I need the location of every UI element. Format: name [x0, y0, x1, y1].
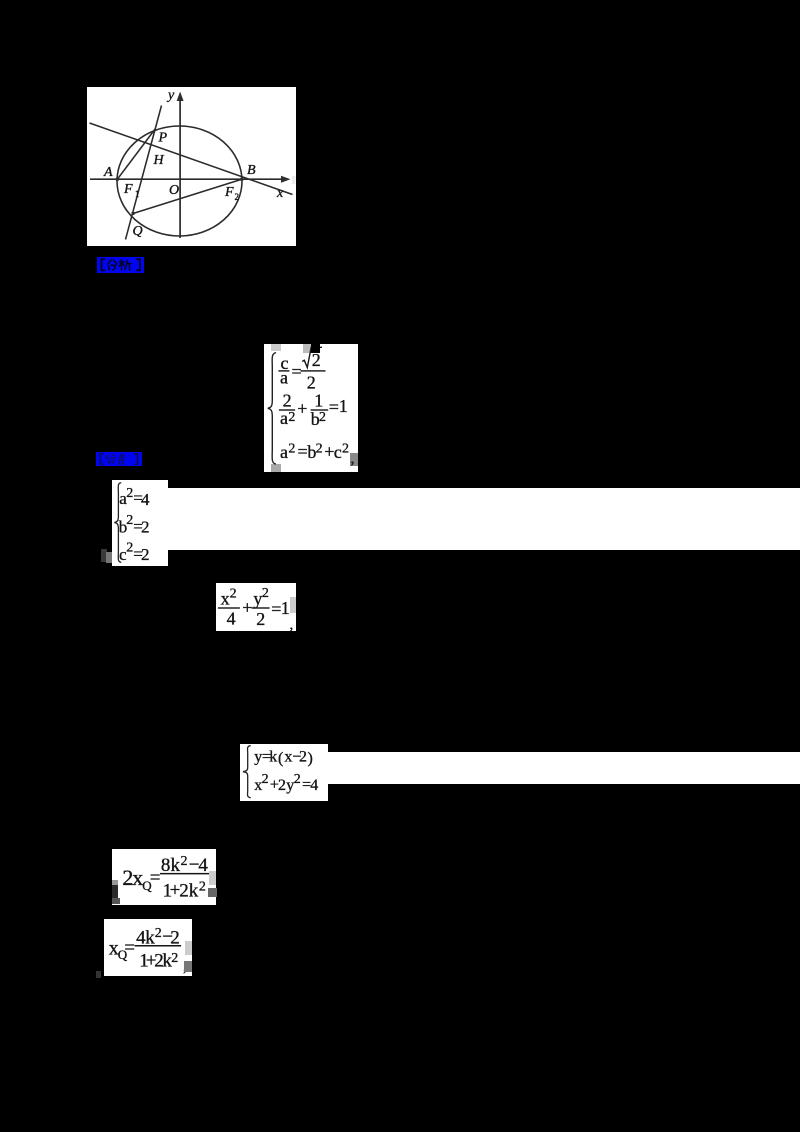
svg-text:,: ,: [290, 617, 294, 631]
svg-text:k: k: [145, 927, 155, 948]
svg-text:2: 2: [294, 772, 301, 787]
svg-text:2: 2: [170, 927, 180, 948]
svg-text:+: +: [242, 597, 252, 617]
svg-text:2: 2: [235, 192, 240, 202]
svg-text:=: =: [292, 361, 302, 381]
svg-text:2: 2: [262, 772, 269, 787]
artifact mark left of system2 box: [101, 549, 107, 562]
ellipse: [117, 126, 242, 236]
svg-text:2: 2: [171, 951, 178, 966]
svg-text:): ): [308, 750, 313, 767]
svg-text:k: k: [269, 749, 277, 766]
left brace: [268, 352, 276, 463]
svg-text:Q: Q: [133, 224, 143, 239]
2xQ = (8k2-4)/(1+2k2): [112, 849, 216, 906]
svg-text:2: 2: [307, 372, 316, 392]
svg-text:x: x: [221, 589, 230, 609]
artifact comma left-bottom of xQ box: [96, 971, 101, 978]
labels: [103, 88, 284, 239]
svg-text:2: 2: [230, 587, 237, 602]
point B: [240, 178, 243, 181]
svg-text:c: c: [334, 442, 342, 462]
svg-text:=: =: [329, 396, 339, 416]
svg-text:2: 2: [126, 541, 133, 556]
svg-text:2: 2: [180, 853, 187, 868]
svg-text:2: 2: [256, 609, 265, 629]
svg-text:2: 2: [278, 777, 286, 794]
svg-text:2: 2: [141, 545, 150, 564]
svg-text:x: x: [276, 186, 284, 201]
svg-text:8: 8: [160, 854, 170, 875]
figure: ellipse diagram image: [87, 87, 296, 246]
svg-text:B: B: [247, 163, 256, 178]
svg-text:y: y: [166, 88, 175, 103]
svg-text:2: 2: [126, 513, 133, 528]
svg-text:2: 2: [141, 518, 150, 537]
x^2/4 + y^2/2 = 1: [216, 583, 296, 631]
svg-text:2: 2: [299, 749, 307, 766]
svg-text:a: a: [280, 408, 288, 428]
svg-text:F: F: [224, 185, 234, 200]
segment AP: [117, 129, 155, 180]
svg-text:4: 4: [227, 609, 236, 629]
svg-text:2: 2: [312, 350, 321, 370]
svg-text:2: 2: [179, 880, 189, 901]
white band 1: [167, 488, 800, 551]
svg-text:a: a: [280, 367, 288, 387]
svg-text:2: 2: [288, 409, 295, 424]
svg-text:2: 2: [316, 441, 323, 456]
svg-text:2: 2: [154, 925, 161, 940]
svg-text:(: (: [278, 750, 283, 767]
blue label 1 [analysis]: [97, 257, 145, 273]
svg-text:=: =: [124, 937, 135, 958]
svg-text:4: 4: [141, 490, 150, 509]
point Q: [132, 212, 135, 215]
svg-text:k: k: [170, 854, 180, 875]
system 2 box: a2=4 b2=2 c2=2: [112, 480, 168, 566]
svg-text:1: 1: [314, 390, 323, 410]
svg-text:=: =: [149, 867, 160, 888]
blue label 2 [answer]: [96, 452, 142, 466]
left brace: [114, 483, 121, 563]
svg-text:2: 2: [198, 879, 205, 894]
svg-text:O: O: [169, 183, 179, 198]
system 1: c/a = sqrt2/2 ; 2/a^2+1/b^2=1 ; a^2=b^2+c^2: [264, 344, 358, 472]
svg-text:x: x: [284, 749, 292, 766]
svg-text:P: P: [158, 131, 168, 146]
svg-text:4: 4: [198, 854, 208, 875]
svg-text:1: 1: [339, 396, 348, 416]
artifacts: gray patches: [271, 344, 281, 351]
svg-text:+: +: [297, 398, 307, 418]
svg-text:1: 1: [281, 598, 290, 618]
svg-text:2: 2: [319, 409, 326, 424]
system 3 box: y=k(x-2) ; x2+2y2=4: [240, 744, 328, 801]
svg-text:2: 2: [262, 586, 269, 601]
svg-text:2: 2: [288, 441, 295, 456]
svg-text:H: H: [153, 153, 165, 168]
white band 2: [327, 752, 800, 785]
segment QB: [133, 179, 242, 213]
y-axis: [179, 97, 181, 239]
svg-text:,: ,: [351, 450, 355, 467]
svg-text:k: k: [188, 880, 198, 901]
svg-text:A: A: [103, 165, 113, 180]
svg-text:F: F: [123, 182, 133, 197]
xQ = (4k2-2)/(1+2k2): [104, 919, 193, 976]
x-axis: [90, 178, 286, 180]
point A: [116, 178, 119, 181]
svg-text:=: =: [298, 441, 308, 461]
svg-text:2: 2: [126, 486, 133, 501]
black notch artifact over system1 top: [311, 343, 320, 353]
svg-text:1: 1: [135, 189, 140, 199]
line PQ steep: [126, 106, 162, 240]
svg-text:a: a: [280, 442, 288, 462]
svg-text:y: y: [254, 749, 262, 766]
svg-text:4: 4: [310, 777, 318, 794]
line through B shallow: [90, 123, 293, 195]
svg-text:2: 2: [342, 441, 349, 456]
